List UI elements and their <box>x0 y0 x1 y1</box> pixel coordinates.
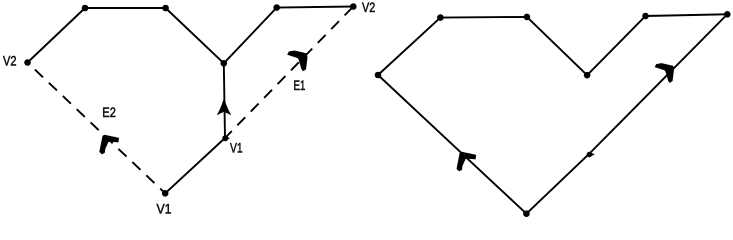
svg-text:V2: V2 <box>3 53 17 69</box>
svg-text:E1: E1 <box>294 78 306 94</box>
svg-text:V1: V1 <box>157 202 172 218</box>
svg-text:E2: E2 <box>102 105 116 121</box>
svg-text:V2: V2 <box>362 0 375 16</box>
svg-text:V1: V1 <box>230 141 243 157</box>
